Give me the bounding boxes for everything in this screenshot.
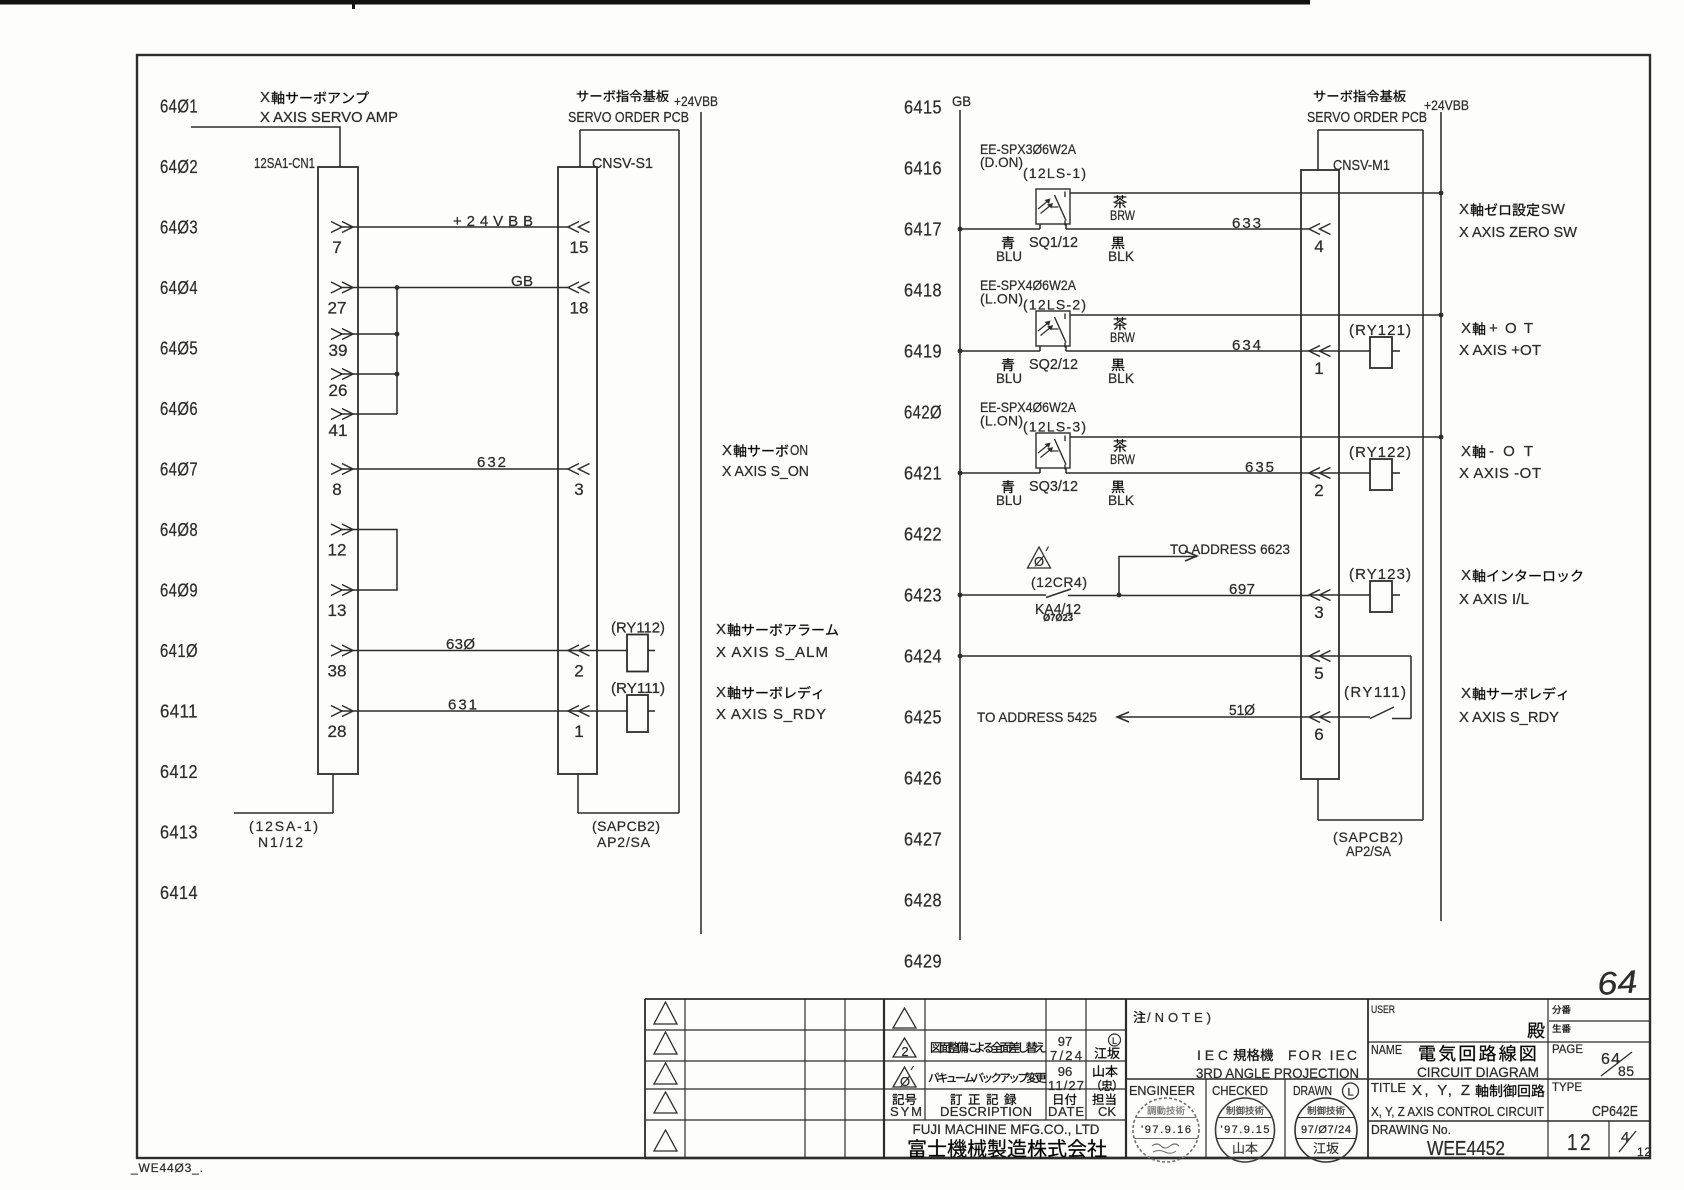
svg-text:TYPE: TYPE [1552,1080,1582,1094]
svg-text:97: 97 [1058,1034,1072,1049]
svg-text:SQ2/12: SQ2/12 [1029,356,1078,373]
svg-text:DESCRIPTION: DESCRIPTION [940,1104,1032,1119]
svg-text:L: L [1112,1036,1117,1046]
svg-text:6422: 6422 [904,525,942,545]
svg-text:6416: 6416 [904,159,942,179]
svg-text:DATE: DATE [1048,1104,1084,1119]
svg-text:X, Y, Z AXIS CONTROL CIRCUIT: X, Y, Z AXIS CONTROL CIRCUIT [1371,1104,1544,1119]
svg-text:CNSV-M1: CNSV-M1 [1333,157,1390,174]
svg-text:64Ø3: 64Ø3 [160,218,198,238]
svg-text:632: 632 [477,454,506,471]
svg-text:CK: CK [1098,1104,1116,1119]
svg-text:3: 3 [1314,603,1323,622]
svg-text:BLU: BLU [996,492,1022,508]
svg-text:11/27: 11/27 [1048,1078,1084,1093]
svg-text:(SAPCB2): (SAPCB2) [592,818,660,834]
svg-text:28: 28 [328,722,347,741]
svg-text:6414: 6414 [160,883,198,903]
svg-text:8: 8 [332,480,341,499]
svg-text:AP2/SA: AP2/SA [1346,843,1392,859]
svg-text:X: X [1459,201,1469,218]
svg-text:(12SA-1): (12SA-1) [249,818,318,834]
svg-text:1: 1 [574,722,583,741]
svg-text:X: X [1461,443,1471,460]
svg-text:6415: 6415 [904,98,942,118]
svg-text:DRAWN: DRAWN [1293,1083,1332,1098]
svg-text:(RY122): (RY122) [1349,444,1411,461]
svg-text:3RD ANGLE PROJECTION: 3RD ANGLE PROJECTION [1196,1065,1359,1081]
svg-text:PAGE: PAGE [1552,1042,1583,1056]
svg-text:1: 1 [1314,359,1323,378]
svg-text:6419: 6419 [904,342,942,362]
svg-text:64Ø1: 64Ø1 [160,97,198,117]
svg-text:SYM: SYM [890,1104,922,1119]
svg-text:Ø: Ø [900,1074,910,1089]
svg-text:5: 5 [1314,664,1323,683]
svg-text:X: X [260,89,270,106]
svg-text:USER: USER [1371,1004,1395,1016]
svg-text:641Ø: 641Ø [160,641,198,661]
svg-text:N1/12: N1/12 [258,834,303,850]
svg-text:64: 64 [1596,963,1638,1002]
svg-text:6411: 6411 [160,702,198,722]
svg-text:7/24: 7/24 [1050,1048,1082,1063]
svg-text:64Ø7: 64Ø7 [160,460,198,480]
svg-text:27: 27 [328,299,347,318]
svg-text:X: X [1461,685,1471,702]
svg-text:FUJI MACHINE MFG.CO., LTD: FUJI MACHINE MFG.CO., LTD [913,1121,1100,1137]
svg-text:SQ3/12: SQ3/12 [1029,478,1078,495]
svg-text:64Ø6: 64Ø6 [160,399,198,419]
svg-text:CP642E: CP642E [1592,1103,1638,1120]
svg-text:38: 38 [328,662,347,681]
svg-text:(D.ON): (D.ON) [980,154,1023,170]
svg-text:X, Y, Z: X, Y, Z [1412,1082,1472,1099]
svg-text:X AXIS I/L: X AXIS I/L [1459,591,1529,608]
svg-text:64Ø5: 64Ø5 [160,339,198,359]
svg-text:Ø: Ø [1034,554,1044,569]
svg-text:2: 2 [574,662,583,681]
svg-text:+OT: +OT [1489,320,1539,337]
svg-text:X AXIS S_RDY: X AXIS S_RDY [1459,709,1559,726]
svg-text:2: 2 [901,1044,908,1059]
svg-text:64Ø2: 64Ø2 [160,157,198,177]
svg-text:(12CR4): (12CR4) [1031,574,1087,590]
svg-text:ON: ON [790,442,808,459]
svg-text:BRW: BRW [1110,451,1136,467]
svg-text:X: X [1461,567,1471,584]
svg-text:SQ1/12: SQ1/12 [1029,234,1078,251]
svg-text:26: 26 [329,381,348,400]
svg-text:SW: SW [1541,201,1566,218]
svg-text:15: 15 [570,238,589,257]
svg-text:12SA1-CN1: 12SA1-CN1 [254,155,315,172]
svg-text:(12LS-3): (12LS-3) [1023,419,1086,435]
svg-text:(RY121): (RY121) [1349,322,1411,339]
svg-text:6417: 6417 [904,220,942,240]
svg-text:12: 12 [1637,1145,1651,1159]
svg-text:97/Ø7/24: 97/Ø7/24 [1301,1124,1351,1136]
svg-text:633: 633 [1232,215,1261,232]
svg-text:6424: 6424 [904,647,942,667]
svg-text:635: 635 [1245,459,1274,476]
svg-text:2: 2 [1314,481,1323,500]
svg-text:64Ø9: 64Ø9 [160,581,198,601]
svg-text:CHECKED: CHECKED [1212,1083,1268,1098]
svg-text:X: X [722,442,732,459]
svg-text:X: X [716,621,726,638]
svg-text:BLU: BLU [996,248,1022,264]
svg-text:13: 13 [328,601,347,620]
svg-text:3: 3 [574,480,583,499]
svg-text:TITLE: TITLE [1371,1080,1406,1095]
svg-text:(12LS-2): (12LS-2) [1023,297,1086,313]
svg-text:642Ø: 642Ø [904,403,942,423]
svg-text:18: 18 [570,299,589,318]
svg-text:(RY111): (RY111) [1344,684,1406,701]
svg-text:41: 41 [329,421,348,440]
svg-text:BLK: BLK [1108,492,1135,508]
svg-text:6412: 6412 [160,762,198,782]
svg-text:-OT: -OT [1489,443,1539,460]
svg-text:96: 96 [1058,1064,1072,1079]
svg-text:(L.ON): (L.ON) [980,291,1023,307]
svg-text:6426: 6426 [904,769,942,789]
svg-text:(RY111): (RY111) [611,680,665,697]
svg-text:X AXIS S_RDY: X AXIS S_RDY [716,706,826,723]
svg-text:X AXIS +OT: X AXIS +OT [1459,342,1541,359]
svg-text:GB: GB [952,93,971,109]
svg-text:51Ø: 51Ø [1229,702,1255,719]
svg-text:(L.ON): (L.ON) [980,413,1023,429]
svg-text:6428: 6428 [904,891,942,911]
svg-text:(12LS-1): (12LS-1) [1023,165,1086,181]
svg-text:BRW: BRW [1110,207,1136,223]
svg-text:_WE44Ø3_.: _WE44Ø3_. [130,1161,203,1175]
svg-text:Ø7Ø23: Ø7Ø23 [1043,613,1073,624]
svg-text:6423: 6423 [904,586,942,606]
svg-text:697: 697 [1229,581,1255,598]
svg-text:(RY123): (RY123) [1349,566,1411,583]
svg-text:6421: 6421 [904,464,942,484]
svg-text:BRW: BRW [1110,329,1136,345]
svg-text:WEE4452: WEE4452 [1427,1138,1505,1160]
svg-text:64Ø8: 64Ø8 [160,520,198,540]
svg-text:85: 85 [1618,1063,1634,1079]
svg-text:6418: 6418 [904,281,942,301]
svg-text:6427: 6427 [904,830,942,850]
svg-text:631: 631 [448,697,477,714]
svg-text:63Ø: 63Ø [446,636,475,653]
svg-text:L: L [1347,1087,1353,1099]
svg-text:BLU: BLU [996,370,1022,386]
svg-text:634: 634 [1232,337,1261,354]
svg-text:6425: 6425 [904,708,942,728]
svg-text:GB: GB [511,273,533,290]
svg-text:39: 39 [329,341,348,360]
svg-text:12: 12 [1567,1129,1593,1155]
svg-text:BLK: BLK [1108,248,1135,264]
svg-text:X AXIS S_ON: X AXIS S_ON [722,463,809,480]
svg-text:12: 12 [328,541,347,560]
svg-text:SERVO ORDER PCB: SERVO ORDER PCB [568,109,689,126]
svg-text:TO ADDRESS 5425: TO ADDRESS 5425 [977,709,1097,725]
svg-text:AP2/SA: AP2/SA [597,834,651,850]
svg-text:X: X [1461,320,1471,337]
svg-text:7: 7 [332,238,341,257]
svg-text:X: X [716,684,726,701]
svg-text:64Ø4: 64Ø4 [160,278,198,298]
svg-text:BLK: BLK [1108,370,1135,386]
svg-text:+24VBB: +24VBB [1424,97,1469,113]
svg-text:6: 6 [1314,725,1323,744]
svg-text:X AXIS SERVO AMP: X AXIS SERVO AMP [260,109,398,126]
svg-text:ENGINEER: ENGINEER [1129,1083,1195,1098]
svg-text:X AXIS S_ALM: X AXIS S_ALM [716,644,828,661]
svg-text:6429: 6429 [904,952,942,972]
svg-text:SERVO ORDER PCB: SERVO ORDER PCB [1307,109,1427,126]
svg-text:X AXIS ZERO SW: X AXIS ZERO SW [1459,224,1578,241]
svg-text:FOR IEC: FOR IEC [1288,1047,1360,1063]
svg-text:X AXIS -OT: X AXIS -OT [1459,465,1541,482]
svg-text:(RY112): (RY112) [611,620,665,637]
svg-text:NAME: NAME [1371,1042,1402,1057]
svg-text:6413: 6413 [160,823,198,843]
svg-text:DRAWING No.: DRAWING No. [1371,1122,1451,1137]
svg-text:CNSV-S1: CNSV-S1 [592,155,653,172]
svg-text:4: 4 [1314,237,1323,256]
svg-text:TO ADDRESS 6623: TO ADDRESS 6623 [1170,541,1290,557]
svg-text:+24VBB: +24VBB [674,93,718,109]
svg-text:CIRCUIT DIAGRAM: CIRCUIT DIAGRAM [1417,1064,1539,1080]
